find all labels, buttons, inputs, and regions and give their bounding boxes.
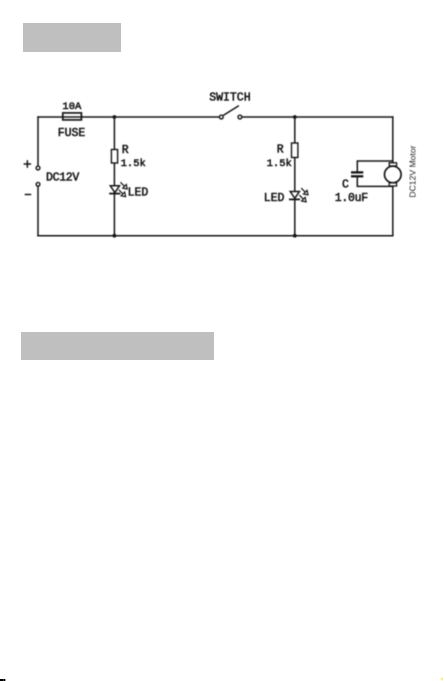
svg-text:FUSE: FUSE <box>58 127 86 140</box>
junction: bottom rail / branch 2 <box>293 234 297 238</box>
switch S1 (SWITCH) <box>219 106 241 119</box>
junction: bottom rail / branch 1 <box>113 234 117 238</box>
wire: top rail, battery to switch <box>38 116 219 118</box>
junction: top rail / branch 2 <box>293 115 297 119</box>
scan artifact mark bottom-left <box>0 679 5 681</box>
wire: right rail, motor to bottom <box>392 186 394 236</box>
svg-text:R: R <box>122 144 129 157</box>
svg-text:C: C <box>342 179 349 192</box>
redaction gray block middle <box>21 332 214 361</box>
battery terminal - (open circle) <box>36 182 40 186</box>
LED1 emission arrow upper <box>120 182 127 189</box>
LED2 diode symbol <box>289 192 300 200</box>
wire: left rail, top to + terminal <box>37 117 39 166</box>
redaction gray block top <box>23 23 121 52</box>
capacitor C1 plates <box>351 172 363 176</box>
svg-text:R: R <box>277 144 284 157</box>
svg-text:LED: LED <box>264 192 285 205</box>
svg-text:1.5k: 1.5k <box>267 158 292 170</box>
symbol + <box>24 160 32 168</box>
svg-text:10A: 10A <box>62 101 82 113</box>
resistor R2 body <box>292 143 298 158</box>
fuse F1 body <box>63 113 82 120</box>
wire: branch 2 resistor to bottom rail through LED2 <box>294 158 296 236</box>
wire: top rail, switch to right corner <box>242 116 393 118</box>
svg-text:1.5k: 1.5k <box>121 158 146 170</box>
wire: capacitor loop bottom segment <box>357 177 393 186</box>
svg-text:DC12V Motor: DC12V Motor <box>408 145 418 197</box>
wire: bottom rail <box>38 235 393 237</box>
scan artifact yellow dot bottom-right <box>441 678 443 680</box>
resistor R1 body <box>111 150 117 164</box>
svg-text:SWITCH: SWITCH <box>209 91 250 104</box>
wire: capacitor loop top segment <box>357 161 393 171</box>
wire: left rail, - terminal to bottom <box>37 186 39 235</box>
motor M1 bottom brush terminal <box>389 183 396 186</box>
wire: right rail, top to motor <box>392 117 394 163</box>
LED2 emission arrow lower <box>299 195 306 202</box>
motor M1 body <box>385 166 402 183</box>
wire: branch 1 top to resistor R1 <box>113 117 115 150</box>
battery terminal + (open circle) <box>36 166 40 170</box>
wire: branch 1 resistor to bottom rail through LED1 <box>113 163 115 236</box>
svg-text:LED: LED <box>128 186 149 199</box>
wire: branch 2 top to resistor R2 <box>294 117 296 143</box>
svg-text:DC12V: DC12V <box>46 172 79 185</box>
svg-text:1.0uF: 1.0uF <box>335 192 368 205</box>
LED1 diode symbol <box>109 186 120 194</box>
symbol - <box>25 194 32 196</box>
motor M1 top brush terminal <box>389 163 396 166</box>
LED2 emission arrow upper <box>301 188 308 195</box>
LED1 emission arrow lower <box>119 190 126 197</box>
junction: top rail / branch 1 <box>113 115 117 119</box>
